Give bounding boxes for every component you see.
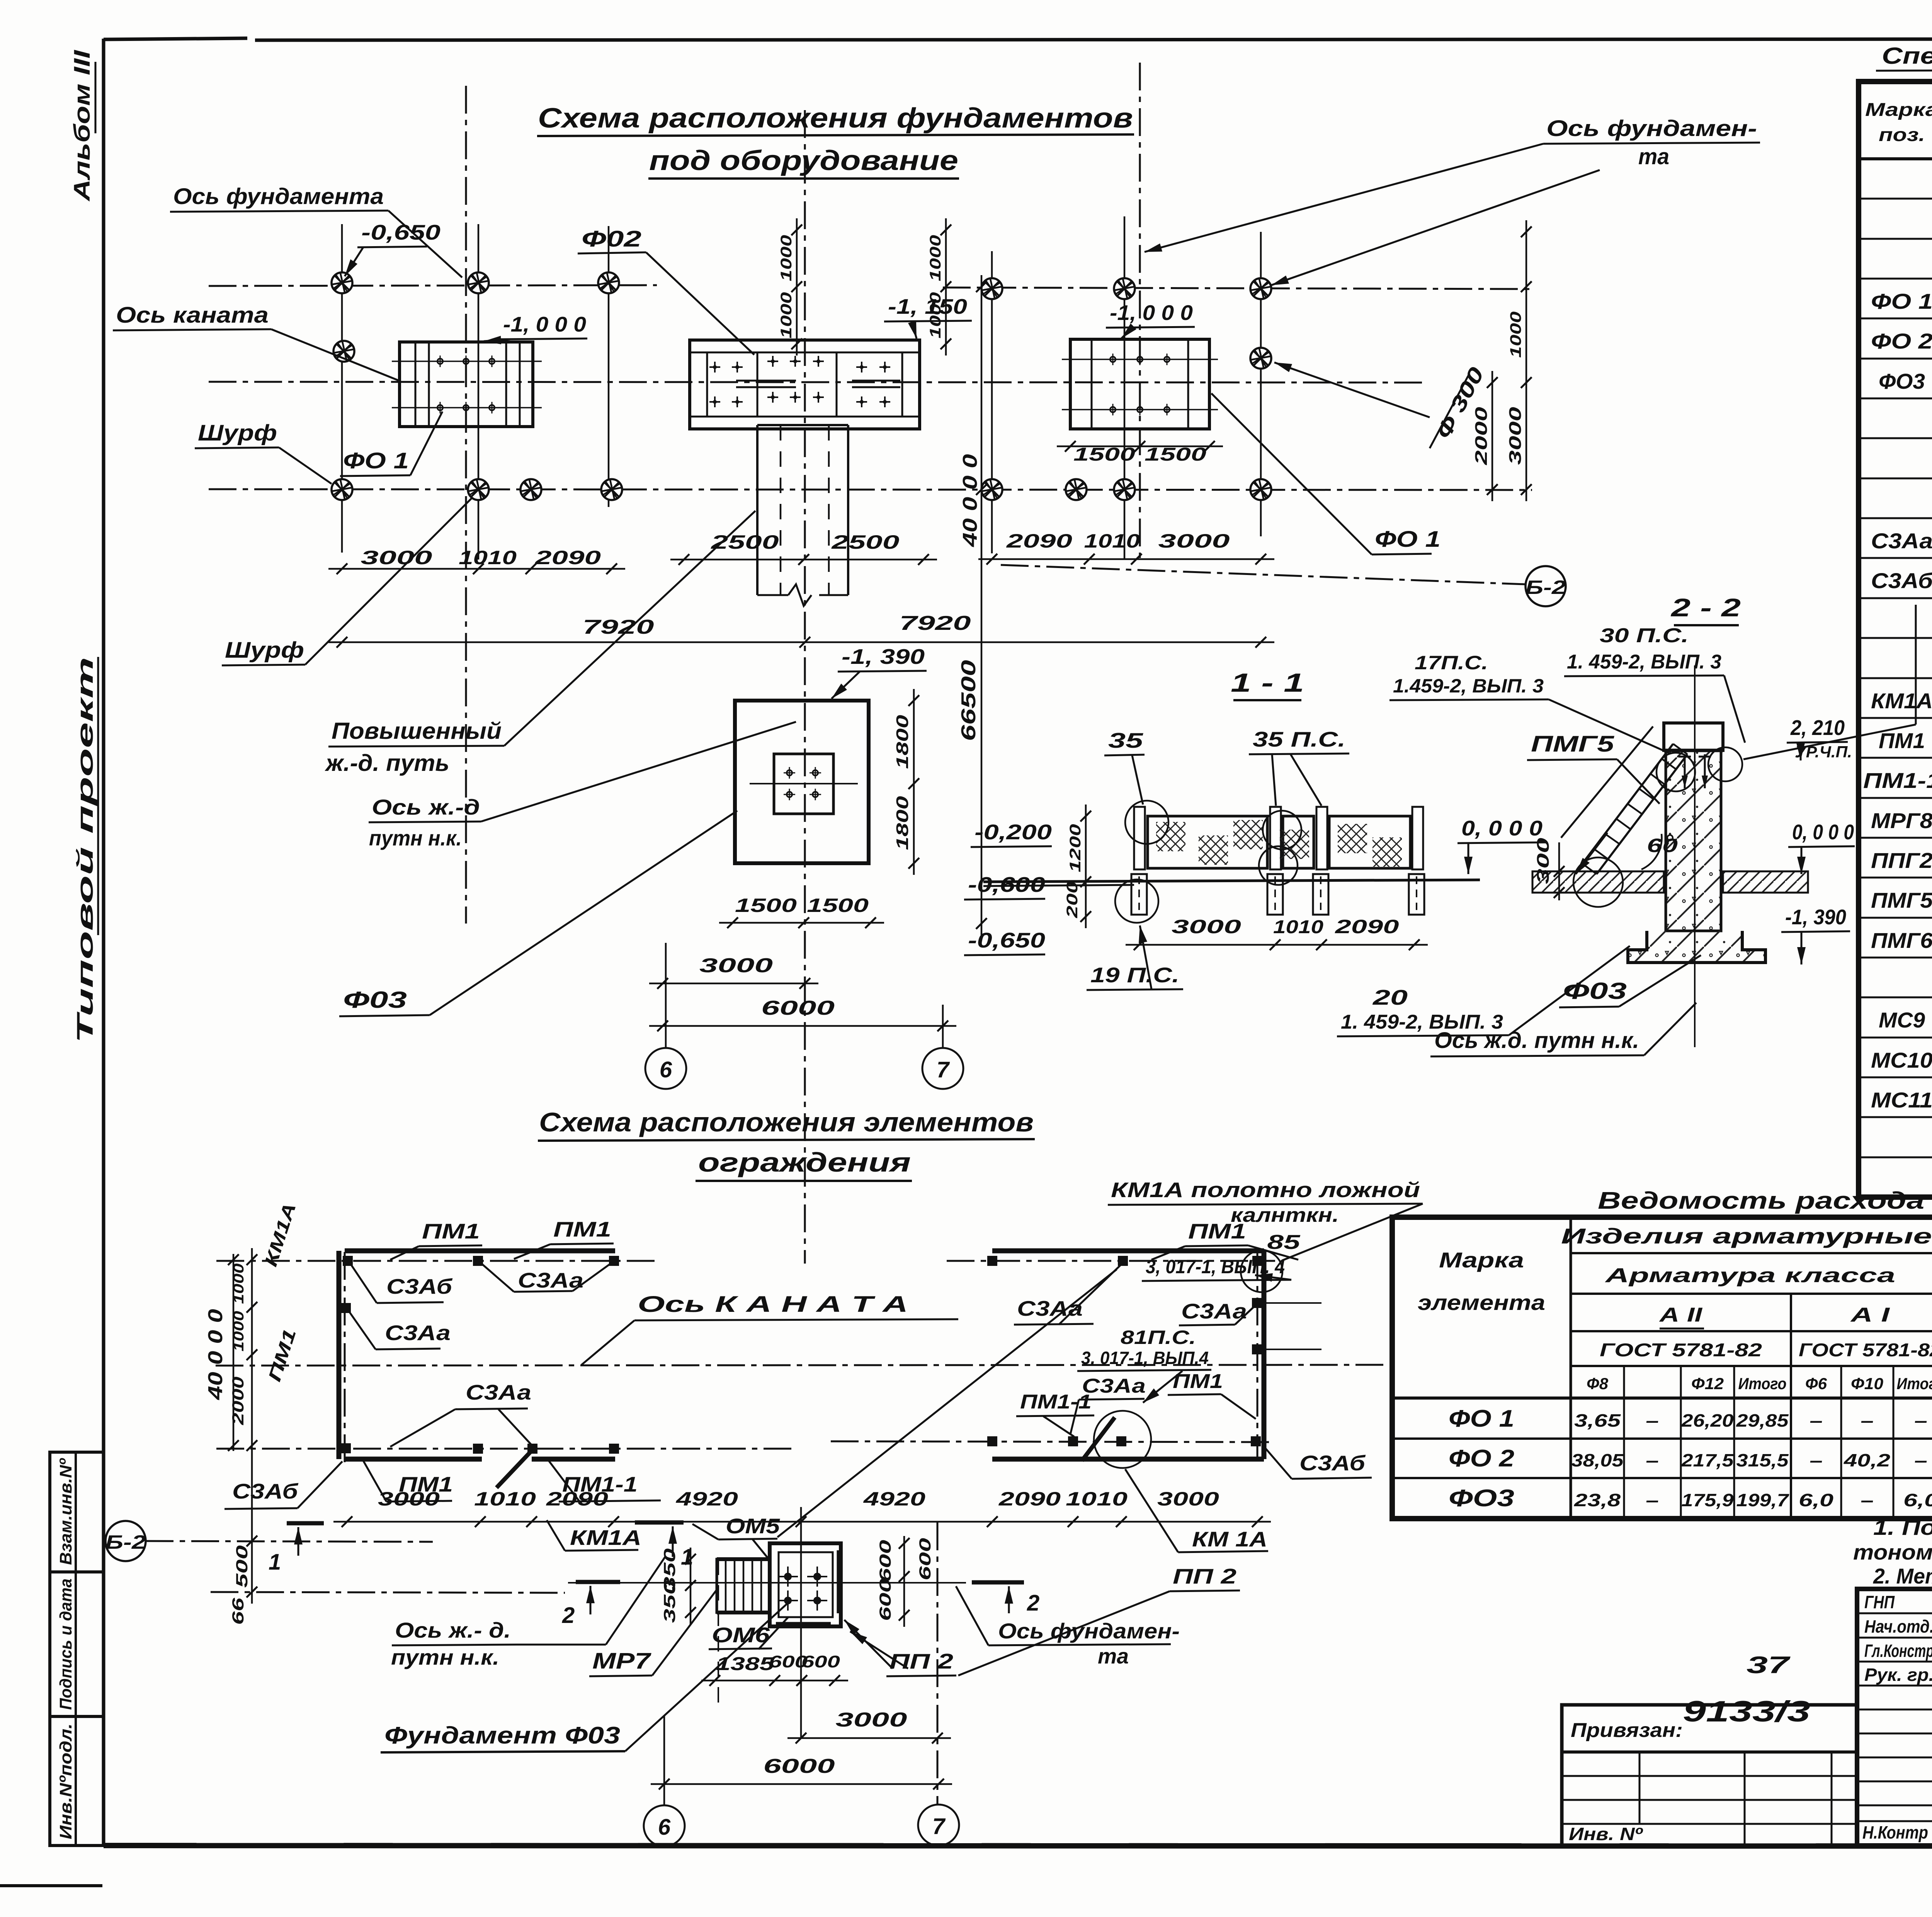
svg-text:ГНП: ГНП: [1864, 1592, 1895, 1612]
scheme2 vertical axis 6: [663, 1716, 665, 1805]
svg-text:3. 017-1, ВЫП.4: 3. 017-1, ВЫП.4: [1081, 1348, 1209, 1368]
svg-text:1000: 1000: [778, 292, 795, 338]
gate diagonal right: [1082, 1417, 1115, 1461]
svg-text:1800: 1800: [893, 714, 912, 769]
svg-text:2, 210: 2, 210: [1790, 716, 1845, 740]
svg-text:2090: 2090: [1335, 916, 1399, 937]
svg-text:1010: 1010: [474, 1488, 536, 1510]
svg-text:-0,650: -0,650: [361, 220, 441, 244]
svg-text:350: 350: [660, 1580, 679, 1623]
section 1-1 dim 3000/1010/2090: [1126, 944, 1428, 946]
svg-text:ж.-д. путь: ж.-д. путь: [325, 750, 449, 776]
left fence axis lines: [216, 1260, 657, 1262]
left stamp column boxes: [50, 1452, 104, 1846]
railway track (повышенный жд путь): [756, 425, 759, 595]
svg-text:1010: 1010: [1066, 1488, 1128, 1510]
svg-text:2090: 2090: [1006, 530, 1072, 552]
svg-text:2500: 2500: [831, 531, 900, 553]
vertical axis lines: [341, 224, 343, 553]
svg-text:С3Аа: С3Аа: [1181, 1299, 1247, 1323]
svg-text:-1, 390: -1, 390: [1785, 905, 1846, 929]
vertical dims 1000/1000 right of ФО2: [945, 218, 947, 356]
left fence left rail КМ1А: [337, 1251, 342, 1459]
svg-text:ПМ1: ПМ1: [553, 1217, 611, 1241]
dim 600/600 rotated right of detail: [903, 1536, 905, 1627]
left fence bottom rail ПМ1/ПМ1-1: [345, 1457, 482, 1462]
dim 300 (2-2): [1558, 842, 1560, 900]
svg-text:1000: 1000: [778, 235, 795, 281]
left fence posts left rail: [341, 1303, 351, 1313]
svg-text:3,65: 3,65: [1574, 1410, 1621, 1431]
svg-text:ГОСТ 5781-82: ГОСТ 5781-82: [1799, 1340, 1932, 1361]
svg-text:Ф02: Ф02: [582, 226, 641, 252]
svg-text:1500: 1500: [1145, 444, 1206, 465]
svg-text:40,2: 40,2: [1844, 1450, 1891, 1470]
svg-text:1385: 1385: [716, 1654, 775, 1674]
vertical dim 1000/3000 far right: [1526, 220, 1527, 501]
svg-text:600: 600: [801, 1652, 840, 1671]
svg-text:Типовой проект: Типовой проект: [73, 657, 98, 1043]
dim chain bottom of fences: [333, 1521, 1271, 1523]
svg-text:2: 2: [562, 1603, 575, 1628]
svg-text:Ф6: Ф6: [1805, 1374, 1827, 1393]
svg-text:9133/3: 9133/3: [1683, 1695, 1810, 1728]
svg-text:С3Аа: С3Аа: [1017, 1296, 1083, 1320]
vedomost table grid: [1392, 1217, 1932, 1519]
svg-text:МС10: МС10: [1871, 1048, 1932, 1072]
dim chain 3000/1010/2090 left: [328, 568, 625, 570]
svg-text:Ф03: Ф03: [1563, 978, 1627, 1004]
svg-text:ФО 2: ФО 2: [1449, 1445, 1514, 1472]
svg-text:ГОСТ 5781-82: ГОСТ 5781-82: [1600, 1340, 1762, 1361]
svg-text:Ось ж.д. путн н.к.: Ось ж.д. путн н.к.: [1434, 1028, 1639, 1053]
svg-text:3000: 3000: [361, 547, 432, 568]
left fence top rail ПМ1: [345, 1249, 615, 1254]
foundation ФО1 right plan: [1070, 339, 1209, 429]
svg-text:ПМ1: ПМ1: [422, 1219, 480, 1243]
svg-text:-1, 150: -1, 150: [888, 294, 967, 318]
svg-text:ПМ1: ПМ1: [1879, 728, 1925, 753]
axis row A (horizontal): [209, 285, 657, 286]
column centerline 2-2: [1694, 665, 1696, 1047]
svg-text:35: 35: [1108, 728, 1144, 752]
svg-text:—: —: [1810, 1410, 1822, 1431]
svg-text:600: 600: [876, 1579, 894, 1621]
svg-text:ПП 2: ПП 2: [1173, 1564, 1237, 1588]
svg-text:ОМ5: ОМ5: [726, 1514, 781, 1538]
svg-text:1010: 1010: [1084, 530, 1140, 552]
gate diagonal left: [497, 1450, 532, 1488]
section mark 1 (right): [635, 1521, 684, 1525]
section mark 1 (left): [287, 1521, 324, 1526]
svg-text:3000: 3000: [699, 954, 773, 977]
svg-text:А II: А II: [1658, 1304, 1703, 1326]
svg-text:Фундамент Ф03: Фундамент Ф03: [384, 1722, 620, 1749]
section 1-1 fence panels with mesh: [1148, 816, 1267, 868]
svg-text:40 0 0 0: 40 0 0 0: [959, 454, 981, 547]
ladder МР7 (2-2): [1582, 744, 1673, 864]
svg-text:Б-2: Б-2: [105, 1531, 146, 1553]
leader from spec to 2-2 detail: [1915, 605, 1917, 725]
svg-text:6,0: 6,0: [1799, 1490, 1834, 1510]
svg-text:6: 6: [660, 1057, 672, 1082]
foundation ФО1 left plan: [400, 342, 533, 427]
right fence bottom rail: [992, 1457, 1264, 1462]
svg-text:30 П.С.: 30 П.С.: [1600, 624, 1689, 647]
right fence top rail: [992, 1249, 1264, 1254]
svg-text:Итого: Итого: [1897, 1374, 1932, 1393]
svg-text:КМ1А: КМ1А: [570, 1526, 641, 1550]
svg-text:85: 85: [1267, 1231, 1301, 1254]
svg-text:Ось ж.- д.: Ось ж.- д.: [395, 1618, 511, 1642]
svg-text:2000: 2000: [1472, 407, 1491, 465]
svg-text:6000: 6000: [761, 997, 835, 1019]
svg-text:ПМ1: ПМ1: [399, 1472, 453, 1496]
column cap 2-2: [1664, 723, 1723, 750]
svg-text:1. После установки стоек ог: 1. После установки стоек ограждения шурф…: [1873, 1515, 1932, 1539]
svg-text:7920: 7920: [583, 616, 654, 638]
svg-text:Ф03: Ф03: [343, 987, 407, 1013]
svg-text:1800: 1800: [893, 796, 912, 850]
svg-text:1. 459-2, ВЫП. 3: 1. 459-2, ВЫП. 3: [1567, 651, 1721, 673]
svg-text:Арматура класса: Арматура класса: [1604, 1264, 1895, 1287]
spec table grid: [1859, 82, 1932, 1197]
svg-text:1: 1: [269, 1550, 281, 1575]
svg-text:Инв. Nº: Инв. Nº: [1569, 1824, 1643, 1844]
svg-text:Гл.Констр: Гл.Констр: [1864, 1641, 1932, 1661]
sheet frame: [104, 38, 247, 39]
svg-text:2 - 2: 2 - 2: [1670, 593, 1741, 622]
svg-text:—: —: [1646, 1410, 1658, 1431]
svg-text:6000: 6000: [764, 1755, 835, 1778]
svg-text:ограждения: ограждения: [698, 1147, 911, 1177]
grid circle 7 scheme2: [918, 1805, 959, 1846]
svg-text:2. Металлические элементы ок: 2. Металлические элементы окрасить масля…: [1873, 1564, 1932, 1588]
svg-text:ФО 2: ФО 2: [1871, 329, 1932, 353]
svg-text:3000: 3000: [836, 1709, 907, 1731]
svg-text:С3Аб: С3Аб: [1871, 568, 1932, 593]
svg-text:2: 2: [1027, 1590, 1039, 1616]
svg-text:Схема расположения фундамент: Схема расположения фундаментов: [538, 103, 1133, 134]
grid circle Б-2 (top scheme): [1526, 566, 1566, 606]
svg-text:6,0: 6,0: [1903, 1490, 1932, 1510]
svg-text:6: 6: [658, 1815, 671, 1840]
right fence posts bottom: [987, 1436, 997, 1446]
stair МР7 plan: [717, 1559, 770, 1613]
svg-text:500: 500: [233, 1545, 251, 1588]
section 1-1 posts above ground: [1134, 807, 1145, 869]
svg-text:Ось фундамента: Ось фундамента: [173, 184, 384, 209]
svg-text:С3Аб: С3Аб: [1299, 1451, 1366, 1475]
svg-text:-1, 0 0 0: -1, 0 0 0: [1110, 301, 1193, 325]
svg-text:ПМГ5: ПМГ5: [1871, 888, 1932, 912]
svg-text:1500: 1500: [735, 895, 797, 916]
svg-text:Шурф: Шурф: [198, 420, 277, 446]
svg-text:1 - 1: 1 - 1: [1231, 668, 1304, 697]
svg-text:ПМ1-1: ПМ1-1: [1020, 1391, 1092, 1413]
svg-text:Марка: Марка: [1439, 1248, 1524, 1272]
axis B-2 (horizontal to circle): [1001, 565, 1525, 584]
svg-text:калнткн.: калнткн.: [1231, 1204, 1339, 1226]
svg-text:—: —: [1915, 1450, 1927, 1470]
grid circle 6 (scheme1): [665, 943, 667, 1048]
svg-text:1000: 1000: [1507, 311, 1524, 358]
svg-text:3000: 3000: [1157, 1488, 1219, 1510]
survey pit circles (шурф) left group: [332, 272, 352, 293]
svg-text:-0,200: -0,200: [975, 820, 1052, 844]
grid circle Б-2 scheme2: [105, 1521, 146, 1561]
svg-text:ПМГ6: ПМГ6: [1871, 928, 1932, 953]
svg-text:29,85: 29,85: [1736, 1410, 1789, 1431]
right fence posts top: [987, 1256, 997, 1266]
dim 3000 axis6: [649, 983, 818, 985]
svg-text:Ф12: Ф12: [1691, 1374, 1724, 1393]
svg-text:С3Аб: С3Аб: [386, 1274, 453, 1298]
svg-text:300: 300: [1534, 837, 1553, 884]
dim 1500/1500 under Ф03: [719, 922, 884, 924]
svg-text:та: та: [1638, 144, 1669, 169]
svg-text:Шурф: Шурф: [225, 638, 304, 663]
svg-text:поз.: поз.: [1879, 125, 1925, 145]
svg-text:—: —: [1915, 1410, 1927, 1431]
svg-text:Спецификация элементов к сх: Спецификация элементов к схемам, располо…: [1882, 43, 1932, 69]
svg-text:Ф10: Ф10: [1851, 1374, 1883, 1393]
svg-text:ФО 1: ФО 1: [1871, 289, 1932, 313]
scheme2 stair axis dash: [718, 1560, 719, 1711]
svg-text:Ведомость расхода стали на: Ведомость расхода стали на один фундамен…: [1598, 1187, 1932, 1214]
sign table (title block left part): [1857, 1589, 1932, 1846]
svg-text:1010: 1010: [1273, 917, 1323, 937]
svg-text:2090: 2090: [534, 547, 601, 568]
right fence axis lines: [947, 1260, 1275, 1262]
section 1-1 ground line: [983, 880, 1480, 882]
dim 2500/2500 center: [670, 559, 937, 561]
svg-text:1000: 1000: [927, 235, 944, 281]
svg-text:-0,650: -0,650: [968, 928, 1046, 952]
svg-text:1200: 1200: [1067, 824, 1084, 873]
svg-text:Марка: Марка: [1865, 100, 1932, 120]
detail circle gate corner (КМ1А): [1241, 1250, 1282, 1292]
svg-text:Ф8: Ф8: [1587, 1374, 1609, 1393]
svg-text:Ось фундамен-: Ось фундамен-: [998, 1619, 1180, 1643]
svg-text:элемента: элемента: [1418, 1290, 1545, 1315]
vertical dims 1000/1000 left of ФО2: [796, 218, 798, 356]
svg-text:19 П.С.: 19 П.С.: [1090, 963, 1179, 987]
svg-text:Ось К А Н А Т А: Ось К А Н А Т А: [638, 1292, 908, 1317]
svg-text:ПМГ5: ПМГ5: [1531, 731, 1614, 757]
vertical dim 40000/66500: [981, 275, 983, 935]
svg-text:23,8: 23,8: [1574, 1490, 1621, 1510]
svg-text:С3Аа: С3Аа: [1871, 529, 1932, 553]
svg-text:3000: 3000: [1158, 530, 1230, 552]
svg-text:-1, 390: -1, 390: [842, 645, 925, 668]
section line 2-2 horizontal: [568, 1582, 966, 1584]
dim 6000 scheme2: [651, 1783, 952, 1785]
right fence posts right rail: [1252, 1298, 1262, 1308]
grid circle 6 scheme2: [644, 1805, 685, 1846]
svg-text:МРГ8: МРГ8: [1871, 808, 1932, 833]
svg-text:66: 66: [229, 1597, 247, 1625]
svg-text:0, 0 0 0: 0, 0 0 0: [1792, 820, 1854, 844]
svg-text:Альбом III: Альбом III: [70, 49, 95, 202]
svg-text:под оборудование: под оборудование: [649, 145, 958, 176]
svg-text:Ось каната: Ось каната: [116, 303, 269, 328]
svg-text:26,20: 26,20: [1681, 1410, 1734, 1431]
svg-text:35 П.С.: 35 П.С.: [1253, 727, 1345, 751]
svg-text:С3Аа: С3Аа: [466, 1380, 531, 1404]
svg-text:315,5: 315,5: [1736, 1450, 1789, 1470]
scheme2 vertical axis 7: [937, 1522, 939, 1804]
svg-text:Б-2: Б-2: [1526, 577, 1566, 598]
svg-text:—: —: [1646, 1450, 1658, 1470]
vertical dim 1800/1800 right of Ф03: [913, 689, 915, 875]
svg-text:Привязан:: Привязан:: [1571, 1719, 1683, 1742]
svg-text:КМ1А полотно ложной: КМ1А полотно ложной: [1111, 1178, 1420, 1202]
svg-text:Инв.Nºподл.: Инв.Nºподл.: [56, 1723, 75, 1839]
dim 1500/1500 right: [1057, 446, 1223, 447]
privyazan block: [1562, 1705, 1857, 1846]
svg-text:200: 200: [1064, 881, 1081, 919]
foundation Ф03 detail plan scheme2: [770, 1543, 841, 1626]
svg-text:66500: 66500: [957, 660, 980, 741]
svg-text:Подпись и дата: Подпись и дата: [56, 1579, 75, 1710]
svg-text:1010: 1010: [459, 547, 517, 568]
svg-text:600: 600: [876, 1540, 894, 1582]
section mark 2 (left): [576, 1580, 620, 1584]
anchor bolts in foundation plan: [784, 1573, 792, 1580]
svg-text:Рук. гр.: Рук. гр.: [1864, 1665, 1932, 1685]
svg-text:Нач.отд.: Нач.отд.: [1864, 1616, 1932, 1636]
left fence posts bottom: [473, 1444, 483, 1454]
svg-text:ПМ1-1: ПМ1-1: [1863, 768, 1932, 793]
svg-text:МС11: МС11: [1871, 1088, 1932, 1112]
svg-text:1.459-2, ВЫП. 3: 1.459-2, ВЫП. 3: [1393, 675, 1544, 697]
svg-text:Ось фундамен-: Ось фундамен-: [1546, 116, 1757, 141]
svg-text:С3Аа: С3Аа: [385, 1321, 451, 1345]
svg-text:С3Аб: С3Аб: [232, 1479, 299, 1503]
svg-text:—: —: [1810, 1450, 1822, 1470]
detail circles 2-2: [1656, 753, 1695, 791]
svg-text:КМ1А: КМ1А: [1871, 689, 1932, 713]
svg-text:ФО3: ФО3: [1449, 1485, 1514, 1512]
svg-text:ФО 1: ФО 1: [343, 448, 409, 473]
dim chain 2090/1010/3000 right: [978, 558, 1274, 560]
svg-text:ФО 1: ФО 1: [1375, 527, 1440, 552]
svg-text:37: 37: [1747, 1652, 1791, 1679]
dim 40000 scheme2: [233, 1254, 235, 1451]
svg-text:199,7: 199,7: [1736, 1490, 1790, 1510]
footing 2-2: [1628, 931, 1765, 963]
svg-text:путн н.к.: путн н.к.: [369, 826, 462, 850]
survey pit circles right group: [981, 278, 1002, 299]
svg-text:МС9: МС9: [1879, 1008, 1925, 1032]
anchor bolts in column top: [1684, 754, 1686, 788]
svg-text:38,05: 38,05: [1571, 1450, 1624, 1470]
svg-text:ФО 1: ФО 1: [1449, 1405, 1514, 1432]
svg-text:МР7: МР7: [592, 1648, 651, 1674]
foundation Ф03 plan (square): [735, 701, 869, 863]
svg-text:4920: 4920: [863, 1488, 926, 1510]
svg-text:путн н.к.: путн н.к.: [391, 1645, 499, 1669]
column body 2-2 (concrete): [1666, 750, 1721, 931]
grid circle 7 (scheme1): [942, 1005, 944, 1048]
vertical dim 2000 right: [1492, 371, 1493, 501]
left vertical dim chain scheme2: [251, 1248, 253, 1604]
svg-text:КМ 1А: КМ 1А: [1192, 1527, 1267, 1551]
right fence right rail: [1262, 1251, 1267, 1459]
svg-text:Ось ж.-д: Ось ж.-д: [372, 795, 480, 819]
svg-text:3000: 3000: [1172, 916, 1241, 937]
detail circle 81ps: [1094, 1411, 1151, 1468]
svg-text:17П.С.: 17П.С.: [1415, 652, 1488, 674]
dim 7920/7920: [328, 641, 1274, 643]
dim 6000 axis6-7: [649, 1025, 956, 1027]
axis row B (horizontal): [209, 489, 1532, 490]
svg-text:217,5: 217,5: [1681, 1450, 1734, 1470]
svg-text:ФО3: ФО3: [1879, 369, 1925, 393]
svg-text:2090: 2090: [998, 1488, 1061, 1510]
svg-text:7: 7: [932, 1814, 946, 1839]
svg-text:ПП 2: ПП 2: [889, 1649, 954, 1673]
left fence posts top: [343, 1256, 353, 1266]
svg-text:Взам.инв.Nº: Взам.инв.Nº: [56, 1458, 75, 1565]
svg-text:Схема расположения элементов: Схема расположения элементов: [539, 1107, 1034, 1137]
svg-text:Повышенный: Повышенный: [332, 718, 502, 744]
svg-text:С3Аа: С3Аа: [518, 1268, 583, 1292]
fence cable axis (ось каната) scheme2: [216, 1365, 1388, 1366]
svg-text:А I: А I: [1850, 1304, 1890, 1326]
svg-text:1500: 1500: [1073, 444, 1135, 465]
svg-text:3000: 3000: [1506, 407, 1525, 465]
dim 350/350 rotated: [690, 1548, 692, 1625]
section mark 2 (right): [972, 1580, 1024, 1585]
vertical dim 1200/200 section 1-1: [1085, 805, 1087, 928]
svg-text:-1, 0 0 0: -1, 0 0 0: [503, 312, 586, 336]
svg-text:81П.С.: 81П.С.: [1121, 1327, 1196, 1348]
svg-text:Итого: Итого: [1738, 1374, 1787, 1393]
long leader ОМ5 to right fence: [777, 1269, 1117, 1537]
svg-text:ППГ2: ППГ2: [1871, 848, 1932, 873]
dim 3000 scheme2: [787, 1737, 951, 1739]
svg-text:175,9: 175,9: [1682, 1490, 1734, 1510]
svg-text:—: —: [1646, 1490, 1658, 1510]
svg-text:600: 600: [916, 1538, 934, 1580]
svg-text:20: 20: [1372, 985, 1408, 1009]
svg-text:7: 7: [937, 1057, 950, 1082]
svg-text:ПМ1: ПМ1: [1173, 1370, 1223, 1393]
svg-text:4920: 4920: [676, 1488, 738, 1510]
svg-text:7920: 7920: [900, 612, 971, 634]
svg-text:40 0 0 0: 40 0 0 0: [204, 1309, 227, 1400]
ground strips 2-2: [1532, 871, 1664, 893]
svg-text:та: та: [1098, 1644, 1129, 1668]
svg-text:Изделия арматурные: Изделия арматурные: [1561, 1224, 1932, 1248]
svg-text:0, 0 0 0: 0, 0 0 0: [1461, 816, 1543, 840]
section 1-1 detail circles: [1125, 801, 1168, 844]
svg-text:Н.Контр: Н.Контр: [1862, 1822, 1928, 1842]
section 1-1 posts below ground: [1131, 874, 1147, 915]
svg-text:2000: 2000: [229, 1377, 247, 1425]
dim 1385/600/600: [701, 1680, 848, 1682]
svg-text:—: —: [1861, 1490, 1873, 1510]
axis cable line (ось каната): [209, 382, 1422, 383]
scheme2 center axis: [800, 1507, 802, 1739]
svg-text:—: —: [1861, 1410, 1873, 1431]
svg-text:-0,600: -0,600: [968, 873, 1046, 896]
svg-text:тоном марки „100. ”: тоном марки „100. ”: [1853, 1540, 1932, 1564]
foundation ФО2 plan: [690, 340, 920, 429]
axis жд пути dash line left: [211, 1592, 565, 1593]
